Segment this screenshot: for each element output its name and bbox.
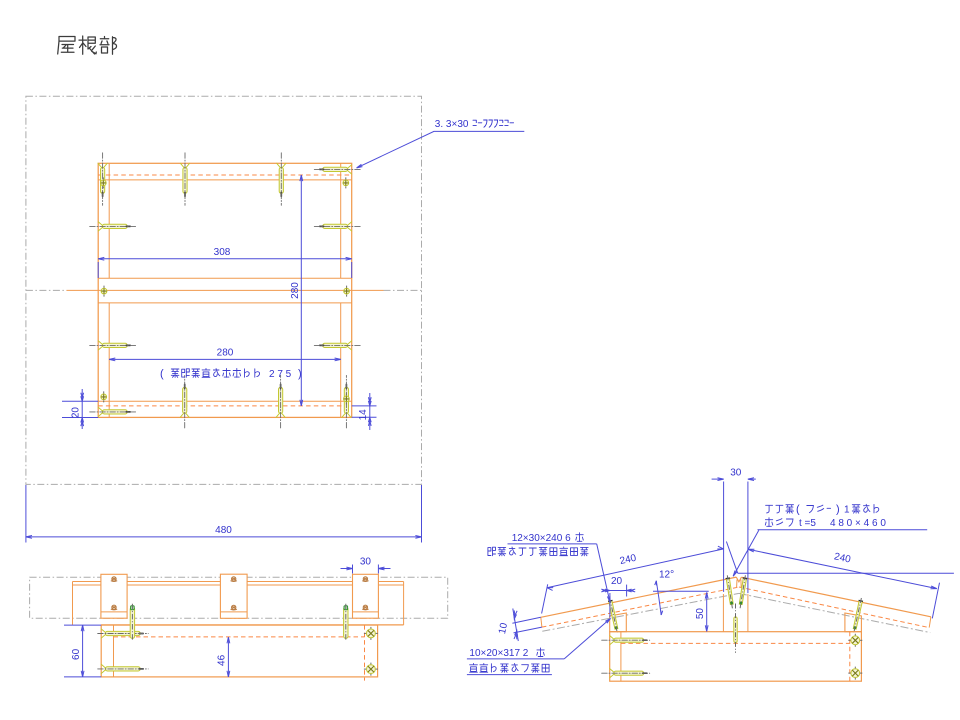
screw (angled, green tip) bbox=[726, 575, 734, 608]
left 240 extension bbox=[542, 584, 548, 613]
svg-text:308: 308 bbox=[214, 247, 231, 258]
sheet outline (480x460 plywood, phantom) bbox=[26, 96, 422, 484]
svg-text:50: 50 bbox=[695, 608, 706, 620]
underline 4 bbox=[467, 674, 552, 676]
screw (countersunk, in-plane horizontal) bbox=[90, 341, 138, 350]
screw (countersunk, in-plane vertical) bbox=[277, 153, 286, 206]
box inner vertical (front) bbox=[113, 625, 115, 677]
box inner vertical left (gable) bbox=[620, 632, 622, 682]
ridge post right edge bbox=[747, 594, 749, 632]
screw head (axial, small cross) bbox=[344, 393, 350, 404]
right pla-dan top (hidden dashed) bbox=[739, 587, 929, 628]
left pla-dan top (hidden dashed) bbox=[542, 587, 739, 627]
screw (countersunk, in-plane horizontal) bbox=[313, 222, 361, 231]
svg-text:30: 30 bbox=[730, 467, 742, 478]
screw head (axial, cross) bbox=[364, 663, 378, 676]
screw (countersunk, in-plane horizontal) bbox=[602, 669, 650, 678]
dimension 240 right slope bbox=[748, 549, 937, 588]
screw (countersunk, in-plane horizontal) bbox=[313, 165, 361, 174]
left pla-dan bottom (phantom) bbox=[542, 593, 739, 631]
middle rail centerline bbox=[67, 289, 99, 291]
wood screw head (tan) bbox=[111, 605, 117, 610]
pla-dan leader to ridge bbox=[733, 530, 759, 576]
dimension 480 bbox=[25, 485, 27, 543]
svg-text:1: 1 bbox=[844, 505, 850, 516]
dimension 60 bbox=[64, 624, 101, 626]
svg-text:280: 280 bbox=[217, 348, 234, 359]
svg-text:12°: 12° bbox=[659, 569, 674, 580]
screw head (axial, small cross) bbox=[101, 286, 107, 297]
roof base plate bottom edge bbox=[101, 624, 403, 626]
screw (countersunk, in-plane horizontal) bbox=[90, 407, 138, 416]
wood screw head (tan) bbox=[231, 605, 237, 610]
wood screw head (tan) bbox=[111, 577, 117, 582]
horizontal reference line from ridge bbox=[738, 572, 954, 574]
screw (vertical, green tip) bbox=[130, 604, 134, 640]
screw (countersunk, in-plane vertical) bbox=[180, 153, 189, 206]
note underline bbox=[508, 543, 597, 545]
svg-text:14: 14 bbox=[358, 409, 369, 421]
frame centerline left (phantom) bbox=[26, 289, 67, 291]
screw (countersunk, in-plane horizontal) bbox=[98, 664, 149, 673]
svg-text:30: 30 bbox=[360, 557, 372, 568]
screw (countersunk, in-plane vertical) bbox=[98, 153, 107, 206]
top rail hidden edge (dashed) bbox=[98, 174, 352, 176]
screw head (axial, cross) bbox=[848, 667, 862, 680]
screw (countersunk, in-plane horizontal) bbox=[98, 629, 149, 638]
screw head (axial, small cross) bbox=[343, 177, 349, 188]
frame inner vertical right bbox=[340, 163, 342, 278]
lower box (front view) bbox=[101, 625, 377, 677]
pla-dan left end cap bbox=[72, 582, 74, 625]
screw head (axial, small cross) bbox=[100, 177, 106, 188]
dimension 46 bbox=[227, 637, 229, 677]
svg-text:4 8 0 × 4 6 0: 4 8 0 × 4 6 0 bbox=[830, 518, 886, 529]
leader 3.3x30 coarse thread screw bbox=[357, 131, 525, 168]
svg-text:280: 280 bbox=[290, 282, 301, 299]
svg-text:480: 480 bbox=[215, 525, 232, 536]
note サイズ t=5 480x460 bbox=[765, 518, 793, 527]
svg-text:(: ( bbox=[160, 368, 164, 380]
right angled support 10x20 bbox=[845, 613, 862, 632]
svg-text:46: 46 bbox=[217, 654, 228, 666]
wood screw head (tan) bbox=[362, 605, 368, 610]
svg-text:2 7 5: 2 7 5 bbox=[269, 369, 292, 380]
left roof strip top edge bbox=[541, 577, 737, 617]
horizontal ref for angle/50 bbox=[653, 590, 709, 592]
pla-dan right end cap bbox=[403, 582, 405, 625]
underline 3 bbox=[467, 658, 564, 660]
middle rail bottom edge bbox=[98, 302, 352, 304]
dimension 280 horizontal bbox=[109, 358, 341, 360]
middle rail top edge bbox=[98, 277, 352, 279]
title 屋根部 bbox=[58, 36, 117, 54]
note 屋根のプラ段固定用板 bbox=[488, 547, 588, 556]
roof frame outer rectangle bbox=[98, 163, 352, 417]
dimension 280 vertical bbox=[300, 175, 302, 406]
screw (countersunk, in-plane vertical) bbox=[180, 375, 189, 428]
screw head (axial, small cross) bbox=[344, 286, 350, 297]
box hidden vertical right (dashed) bbox=[364, 625, 366, 681]
leader to support bbox=[564, 618, 610, 659]
dimension 10 (strip thickness) bbox=[513, 609, 519, 642]
wood screw head (tan) bbox=[362, 577, 368, 582]
box hidden vertical right (gable, dashed) bbox=[849, 632, 851, 682]
right roof end cap bbox=[929, 617, 931, 628]
svg-text:20: 20 bbox=[611, 576, 623, 587]
screw head (axial, cross) bbox=[364, 627, 378, 640]
screw (countersunk, in-plane horizontal) bbox=[602, 636, 650, 645]
bottom rail hidden edge (dashed) bbox=[98, 405, 352, 407]
box hidden horizontal (dashed) bbox=[114, 636, 365, 638]
note プラ段グレー1枚なり bbox=[766, 505, 794, 513]
svg-text:3. 3×30: 3. 3×30 bbox=[435, 119, 469, 130]
screw (angled, green tip) bbox=[853, 598, 863, 633]
right pla-dan bottom (phantom) bbox=[739, 593, 930, 632]
screw head (axial, small cross) bbox=[101, 391, 107, 402]
screw (countersunk, in-plane vertical) bbox=[342, 375, 351, 428]
right roof strip top edge bbox=[741, 577, 931, 617]
left angled support 10x20 bbox=[610, 613, 627, 632]
note 角度は鉋にて修正 bbox=[470, 663, 549, 672]
dimension 20 (bottom left) bbox=[62, 400, 98, 402]
ridge post left edge bbox=[722, 594, 724, 632]
svg-text:12×30×240 6: 12×30×240 6 bbox=[512, 533, 571, 544]
dimension 30 (ridge gap) bbox=[723, 482, 725, 592]
top rail bottom edge bbox=[98, 179, 352, 181]
svg-text:20: 20 bbox=[71, 407, 82, 419]
dimension 50 (ridge height) bbox=[706, 593, 708, 632]
dimension 14 (bottom right) bbox=[352, 405, 377, 407]
screw (angled, green tip) bbox=[739, 575, 747, 608]
screw (countersunk, in-plane horizontal) bbox=[313, 341, 361, 350]
svg-text:t =5: t =5 bbox=[799, 518, 816, 529]
dimension 12deg angle bbox=[656, 581, 661, 615]
dimension 20 (gable offset) bbox=[609, 593, 611, 617]
left roof end cap bbox=[541, 617, 542, 627]
fixing plate tab left bbox=[101, 574, 127, 618]
svg-text:): ) bbox=[836, 504, 840, 516]
fixing plate tab center bbox=[220, 574, 247, 618]
note 積層巣箱の外寸は275 bbox=[0, 0, 1, 1]
fixing plate tab right bbox=[353, 574, 379, 618]
note underline 2 bbox=[758, 529, 928, 531]
wood screw head (tan) bbox=[231, 577, 237, 582]
frame inner vertical left bbox=[108, 163, 110, 278]
ridge notch bbox=[736, 577, 741, 582]
right 240 extension bbox=[932, 583, 939, 619]
dimension 240 left slope bbox=[547, 549, 724, 588]
dimension 308 bbox=[97, 262, 99, 278]
svg-text:(: ( bbox=[796, 504, 800, 516]
screw (countersunk, in-plane vertical) bbox=[276, 375, 285, 428]
leader to ridge horizontal bbox=[726, 542, 737, 574]
screw head (axial, cross) bbox=[848, 634, 862, 647]
pla-dan sheet edge (two lines) bbox=[73, 581, 404, 583]
screw (countersunk, in-plane horizontal) bbox=[90, 222, 138, 231]
leader to strip bbox=[597, 544, 610, 602]
box hidden floor line (gable, dashed) bbox=[621, 642, 850, 644]
screw (vertical, green tip) bbox=[344, 604, 348, 640]
dimension 30 (tab width) bbox=[352, 565, 354, 574]
frame centerline right (phantom) bbox=[384, 289, 422, 291]
ridge center screw bbox=[734, 604, 737, 653]
svg-text:60: 60 bbox=[71, 648, 82, 660]
bottom rail top edge bbox=[98, 400, 352, 402]
svg-text:10×20×317 2: 10×20×317 2 bbox=[469, 648, 528, 659]
pla-dan fold edges at ridge bbox=[736, 580, 738, 588]
roof board edge view (phantom) bbox=[30, 577, 448, 618]
screw (angled, green tip) bbox=[608, 598, 618, 633]
lower box (gable view) bbox=[610, 632, 862, 682]
